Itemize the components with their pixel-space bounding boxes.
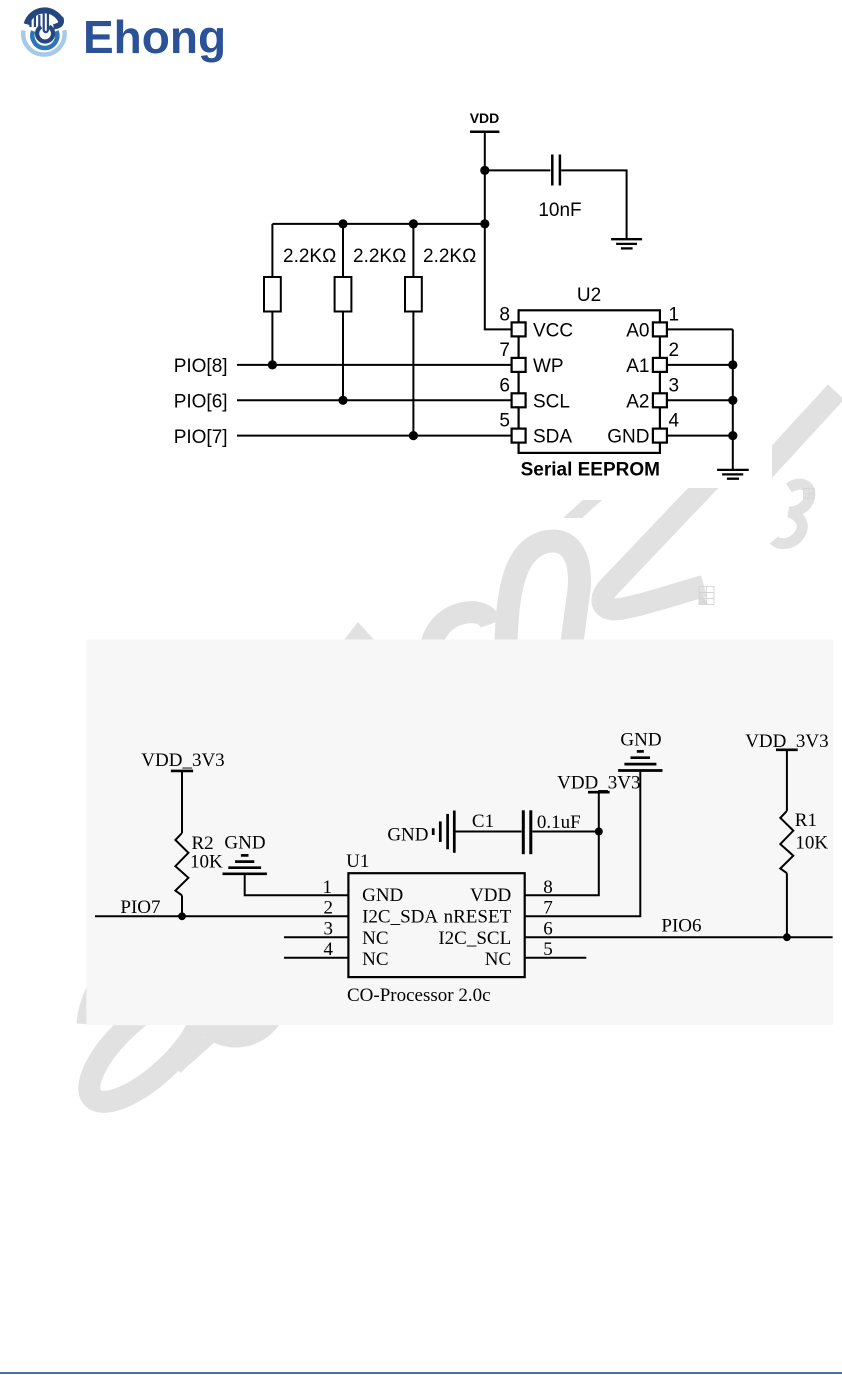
wire pin2 to ground bus <box>667 364 733 366</box>
resistor 2.2K (R-b) <box>335 224 352 400</box>
wire PIO[6] <box>237 399 512 401</box>
svg-text:VDD_3V3: VDD_3V3 <box>141 750 224 771</box>
junction PIO[7] R-c <box>409 431 418 440</box>
svg-text:nRESET: nRESET <box>444 907 512 928</box>
junction R2 PIO7 <box>178 912 186 920</box>
svg-text:GND: GND <box>224 833 265 854</box>
capacitor C1 plates <box>523 810 531 854</box>
resistor 2.2K (R-c) <box>405 224 422 436</box>
svg-text:7: 7 <box>499 340 510 361</box>
IC U1 body <box>348 873 524 977</box>
svg-text:PIO[8]: PIO[8] <box>174 356 228 377</box>
svg-text:U2: U2 <box>577 285 601 306</box>
power bar VDD_3V3 (middle) <box>588 791 610 794</box>
net VDD power symbol <box>470 132 512 330</box>
ground (EEPROM) <box>717 470 749 479</box>
watermark stroke stub <box>563 500 602 518</box>
svg-text:5: 5 <box>543 939 553 960</box>
svg-text:VDD: VDD <box>470 885 511 906</box>
ground (10nF) <box>611 239 642 248</box>
pin 2 A1 pad <box>653 358 667 372</box>
white cover behind schematic 1 <box>140 90 772 488</box>
power bar VDD_3V3 (right) <box>776 748 798 751</box>
svg-text:C1: C1 <box>472 811 494 832</box>
wire pull-up rail <box>272 223 484 225</box>
svg-text:2.2KΩ: 2.2KΩ <box>283 246 336 267</box>
power bar VDD_3V3 (left) <box>171 770 193 773</box>
junction C1 VDD_3V3 <box>595 828 603 836</box>
resistor 2.2K (R-a) <box>264 224 281 365</box>
svg-text:2.2KΩ: 2.2KΩ <box>353 246 406 267</box>
watermark fragment wedge <box>343 622 375 641</box>
svg-text:10nF: 10nF <box>538 200 581 221</box>
svg-text:8: 8 <box>543 877 553 898</box>
svg-text:PIO[7]: PIO[7] <box>174 427 228 448</box>
svg-text:VDD_3V3: VDD_3V3 <box>745 731 828 752</box>
ground symbol (nRESET) <box>618 751 662 770</box>
svg-text:GND: GND <box>607 427 649 448</box>
watermark stroke upper right <box>757 392 836 478</box>
wire VDD_3V3 to R2 <box>181 771 183 833</box>
svg-text:7: 7 <box>543 898 553 919</box>
wire VDD to capacitor <box>485 169 551 171</box>
wire R2 to PIO7 <box>181 895 183 916</box>
footer blue rule <box>0 1372 842 1374</box>
watermark letter n arch <box>506 541 579 646</box>
wire pin3 stub <box>284 936 348 938</box>
junction VDD-rail <box>480 219 489 228</box>
svg-text:2.2KΩ: 2.2KΩ <box>423 246 476 267</box>
ground symbol (pin1) <box>223 855 267 873</box>
svg-text:Serial EEPROM: Serial EEPROM <box>521 460 660 481</box>
svg-text:2: 2 <box>669 340 680 361</box>
svg-text:WP: WP <box>533 356 564 377</box>
svg-text:5: 5 <box>499 411 510 432</box>
gray panel behind schematic 2 <box>86 640 833 1026</box>
pin 1 A0 pad <box>653 322 667 336</box>
logo icon: middle ring <box>32 31 57 48</box>
watermark inner bar <box>177 1036 214 1069</box>
junction PIO[8] R-a <box>268 360 277 369</box>
company logo Ehong <box>18 2 248 68</box>
watermark descender tip <box>84 982 98 1024</box>
junction bus pin4 <box>728 431 737 440</box>
svg-text:2: 2 <box>324 898 334 919</box>
logo icon: outer light arc <box>23 30 64 54</box>
svg-text:VCC: VCC <box>533 321 573 342</box>
pin 8 VCC pad <box>512 322 526 336</box>
svg-text:NC: NC <box>362 949 388 970</box>
watermark letter t stem and hook <box>602 463 727 609</box>
wire PIO7 net <box>95 915 348 917</box>
svg-text:A2: A2 <box>626 391 649 412</box>
svg-text:A0: A0 <box>626 321 649 342</box>
capacitor 10nF <box>552 155 560 186</box>
logo icon: finger lines <box>31 15 40 27</box>
svg-text:GND: GND <box>362 885 403 906</box>
watermark oval loop <box>74 978 219 1119</box>
junction bus pin2 <box>728 360 737 369</box>
svg-text:SDA: SDA <box>533 427 572 448</box>
wire pin6 PIO6 net <box>525 936 833 938</box>
svg-text:1: 1 <box>669 305 680 326</box>
svg-text:NC: NC <box>362 928 388 949</box>
wire pin1 to ground bus <box>667 328 733 330</box>
svg-text:VDD_3V3: VDD_3V3 <box>557 773 640 794</box>
wire ground bus vertical <box>732 329 734 470</box>
wire VDD_3V3 to R1 <box>786 750 788 811</box>
junction VDD-cap <box>480 166 489 175</box>
svg-text:A1: A1 <box>626 356 649 377</box>
wire R1 to PIO6 <box>786 873 788 937</box>
svg-text:8: 8 <box>499 305 510 326</box>
watermark letter o bottom <box>195 954 277 1036</box>
resistor R2 10K <box>175 833 188 895</box>
wire pin4 stub <box>284 957 348 959</box>
small gray grid artifact upper <box>804 489 815 499</box>
svg-text:SCL: SCL <box>533 391 570 412</box>
junction rail R-c <box>409 219 418 228</box>
wire gnd to pin7 nRESET <box>525 772 641 917</box>
svg-text:PIO[6]: PIO[6] <box>174 392 228 413</box>
logo icon: thumb <box>54 18 62 27</box>
IC U2 body <box>519 310 660 453</box>
junction PIO[6] R-b <box>338 396 347 405</box>
pin 5 SDA pad <box>512 429 526 443</box>
svg-text:Ehong: Ehong <box>83 11 226 63</box>
wire pin5 stub <box>525 957 587 959</box>
svg-text:U1: U1 <box>346 851 369 872</box>
svg-text:I2C_SCL: I2C_SCL <box>438 928 511 949</box>
svg-text:1: 1 <box>323 877 333 898</box>
svg-text:VDD: VDD <box>470 110 500 126</box>
wire ground to pin1 <box>245 875 349 895</box>
svg-text:6: 6 <box>543 919 553 940</box>
svg-text:0.1uF: 0.1uF <box>537 812 581 833</box>
svg-text:3: 3 <box>669 375 680 396</box>
small gray annotation artifact <box>699 587 714 605</box>
resistor R1 10K <box>780 811 793 873</box>
junction R1 PIO6 <box>783 933 791 941</box>
svg-text:CO-Processor 2.0c: CO-Processor 2.0c <box>347 985 491 1006</box>
pin 3 A2 pad <box>653 393 667 407</box>
wire C1 to VDD junction <box>532 831 599 833</box>
svg-text:PIO6: PIO6 <box>661 916 701 937</box>
svg-text:PIO7: PIO7 <box>120 897 160 918</box>
logo icon: fist arc <box>27 10 62 24</box>
svg-text:R1: R1 <box>795 810 817 831</box>
svg-text:3: 3 <box>324 919 334 940</box>
watermark Confidential (visible fragments) <box>74 392 836 1118</box>
pin 7 WP pad <box>512 358 526 372</box>
watermark arc fragment <box>429 612 491 657</box>
wire PIO[8] <box>237 364 512 366</box>
watermark curl fragment <box>774 484 810 544</box>
svg-text:I2C_SDA: I2C_SDA <box>362 907 438 928</box>
svg-text:6: 6 <box>499 375 510 396</box>
pin 6 SCL pad <box>512 393 526 407</box>
ground sideways (C1 left) <box>433 811 454 853</box>
wire capacitor to ground <box>561 170 626 238</box>
svg-text:GND: GND <box>620 730 661 751</box>
svg-text:GND: GND <box>387 824 428 845</box>
wire pin8 VDD net <box>525 792 599 895</box>
svg-text:4: 4 <box>324 939 334 960</box>
logo icon: wrist channel <box>44 14 48 33</box>
svg-text:10K: 10K <box>795 833 828 854</box>
junction rail R-b <box>338 219 347 228</box>
wire PIO[7] <box>237 435 512 437</box>
svg-text:NC: NC <box>485 949 511 970</box>
wire pin3 to ground bus <box>667 399 733 401</box>
pin 4 GND pad <box>653 429 667 443</box>
svg-text:4: 4 <box>669 411 680 432</box>
wire pin4 to ground bus <box>667 435 733 437</box>
svg-text:10K: 10K <box>190 851 223 872</box>
logo icon: inner ring <box>37 27 53 42</box>
wire gnd to C1 <box>456 831 522 833</box>
junction bus pin3 <box>728 396 737 405</box>
